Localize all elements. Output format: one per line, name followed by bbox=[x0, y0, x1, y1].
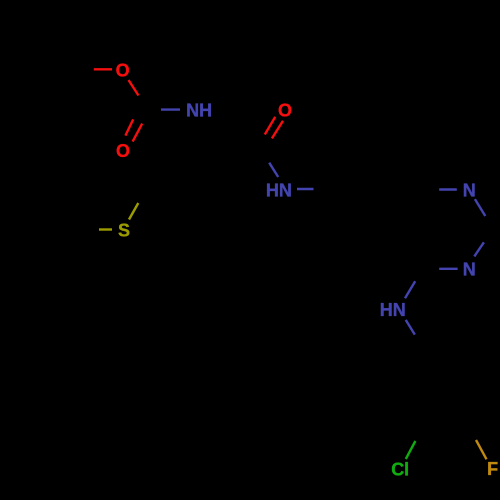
svg-text:O: O bbox=[278, 101, 292, 121]
svg-text:O: O bbox=[116, 141, 130, 161]
svg-text:Cl: Cl bbox=[391, 460, 409, 480]
svg-text:NH: NH bbox=[186, 101, 212, 121]
svg-text:N: N bbox=[463, 260, 476, 280]
svg-text:HN: HN bbox=[380, 300, 406, 320]
svg-text:F: F bbox=[487, 459, 498, 479]
svg-text:HN: HN bbox=[266, 181, 292, 201]
svg-text:N: N bbox=[463, 180, 476, 200]
svg-text:S: S bbox=[118, 220, 130, 240]
svg-text:O: O bbox=[116, 60, 130, 80]
